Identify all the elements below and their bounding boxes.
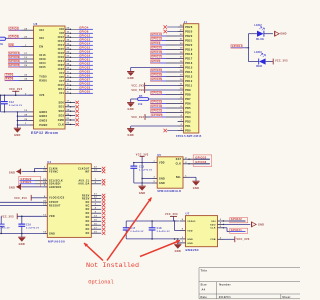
capacitor C16 2.2uF/6.3V [18,216,39,233]
U4 right no-connect pins with X [78,167,105,236]
svg-text:VCC_3V3: VCC_3V3 [1,215,14,218]
ground symbol left of J1 (upper) [127,68,134,81]
svg-text:22: 22 [94,197,97,199]
svg-text:NC: NC [86,229,90,231]
svg-text:21: 21 [67,118,70,120]
svg-text:C18: C18 [157,228,163,230]
svg-text:U5: U5 [157,153,161,157]
svg-text:10k: 10k [0,44,4,46]
svg-text:RESV: RESV [82,195,90,197]
svg-text:GND3: GND3 [39,120,47,123]
svg-text:GPIO15: GPIO15 [79,46,90,50]
svg-text:GPIO33: GPIO33 [151,101,162,104]
wire GND bus under U6 [1,95,29,126]
svg-text:PD3: PD3 [185,116,191,119]
svg-text:VCC_5V0: VCC_5V0 [131,89,144,92]
svg-text:IO2: IO2 [39,29,44,32]
svg-text:2.2uF/6.3V: 2.2uF/6.3V [139,169,153,171]
svg-text:GND: GND [159,178,165,180]
svg-text:IO8: IO8 [59,32,64,35]
svg-text:GND: GND [9,171,15,174]
svg-text:GPIO12: GPIO12 [79,34,90,38]
svg-text:GND: GND [127,77,133,80]
svg-text:17: 17 [67,101,70,103]
svg-text:GND2: GND2 [39,115,47,118]
svg-text:PD26: PD26 [185,26,193,29]
svg-text:PD17: PD17 [185,57,193,60]
svg-text:GPIO18: GPIO18 [79,50,90,54]
arrow note to U7 ground [140,240,180,256]
power GND for LED2 [275,31,287,37]
svg-text:20: 20 [43,201,46,203]
svg-text:IO6: IO6 [59,28,64,31]
svg-text:VDD: VDD [187,230,193,232]
svg-text:18: 18 [43,232,46,234]
capacitor C12 2.2uF/6.3V [1,95,23,112]
svg-text:GPIO19: GPIO19 [79,54,90,58]
net label GPIO13 on J1 [150,33,177,36]
svg-text:VDD: VDD [49,216,55,218]
svg-text:GPIO8: GPIO8 [79,30,89,34]
svg-text:10: 10 [180,88,183,90]
svg-text:IO11: IO11 [58,88,65,91]
svg-text:IO09: IO09 [39,58,46,61]
svg-text:CLK: CLK [210,228,216,230]
svg-text:C12: C12 [9,102,15,104]
ground symbol for U5 SEL [192,177,199,190]
svg-text:SDA/SDI: SDA/SDI [49,183,61,186]
net label GPIO16 [8,52,28,55]
svg-text:GPIO2: GPIO2 [9,27,18,30]
svg-text:GND: GND [139,192,145,195]
svg-text:GPIO16: GPIO16 [151,51,162,54]
svg-text:PD19: PD19 [185,48,193,51]
svg-text:18: 18 [67,105,70,107]
svg-text:GPIO16: GPIO16 [9,52,20,55]
svg-text:GND: GND [14,134,20,137]
power GND at U4 AD0 [9,184,42,190]
svg-text:16: 16 [94,223,97,225]
svg-text:GPIO27: GPIO27 [151,47,162,50]
U7 pin stubs + inner names [180,219,225,245]
svg-text:PD1: PD1 [185,125,191,128]
svg-text:IO16: IO16 [39,54,46,57]
svg-text:GPIO35: GPIO35 [79,90,90,94]
J1 pin stubs + numbers + inner names [178,24,193,132]
svg-text:NC: NC [86,202,90,204]
svg-text:U7: U7 [186,212,190,216]
svg-text:31: 31 [67,56,70,58]
svg-text:CLKIN: CLKIN [49,168,58,170]
svg-text:GPIO12: GPIO12 [151,38,162,41]
net label GPIO23 on J1 [150,109,177,112]
svg-text:CLK: CLK [58,123,64,126]
ground symbol below U7 [174,243,181,253]
note Not Installed [86,262,139,270]
svg-text:2.2uF/6.3V: 2.2uF/6.3V [0,227,10,229]
wire U5 GND pins [134,178,151,184]
wire GND rail to U7 [126,238,179,240]
svg-text:IO5: IO5 [59,76,64,79]
svg-text:22: 22 [94,167,97,169]
svg-text:FSYNC: FSYNC [49,171,58,173]
svg-text:11: 11 [180,84,183,86]
svg-text:2.2uF/6.3V: 2.2uF/6.3V [9,105,23,107]
svg-text:U6: U6 [34,22,38,26]
svg-text:IO22: IO22 [58,64,65,67]
svg-text:GPIO36: GPIO36 [195,160,206,164]
svg-text:GPIO34: GPIO34 [151,69,162,72]
svg-text:PD14: PD14 [185,71,193,74]
svg-text:GPIO32: GPIO32 [195,155,206,159]
svg-text:IO04: IO04 [39,62,46,65]
svg-text:RED: RED [256,65,262,68]
svg-text:10k: 10k [138,104,143,106]
svg-text:AD0/SDO: AD0/SDO [49,186,61,189]
svg-text:14: 14 [94,215,97,218]
svg-text:GPIO09: GPIO09 [9,56,20,59]
svg-text:PD15: PD15 [185,66,193,69]
svg-text:PD18: PD18 [185,53,193,56]
svg-text:GND: GND [159,183,165,185]
svg-text:GND: GND [175,250,181,253]
svg-text:VCC_3V3: VCC_3V3 [14,197,27,200]
arrow note to U5 [107,198,152,261]
svg-text:GPIO4: GPIO4 [151,42,160,45]
svg-text:SPM1423HM4H-B: SPM1423HM4H-B [157,190,181,193]
capacitor C13 2.2uF/6.3V [130,163,152,183]
svg-text:PGND: PGND [39,124,47,127]
svg-text:IO4: IO4 [59,72,64,75]
svg-text:GND0: GND0 [39,111,47,114]
svg-text:36: 36 [67,64,70,66]
svg-text:Not Installed: Not Installed [86,262,139,270]
svg-text:17: 17 [94,227,97,229]
svg-text:2.2uF/6.3V: 2.2uF/6.3V [130,231,144,233]
svg-text:10: 10 [43,204,46,206]
svg-text:LED3: LED3 [254,51,262,54]
svg-text:23: 23 [180,30,183,32]
svg-text:PD4: PD4 [185,111,191,114]
capacitor C18 2.2uF/6.3V [149,221,170,239]
wire VDD net of U5 [133,162,151,183]
svg-text:GPIO32: GPIO32 [79,82,90,86]
IC U7 BME280 body [186,212,218,253]
svg-text:24: 24 [180,24,183,27]
U6 right pin stubs + numbers + inner names [58,28,79,96]
svg-text:TXD0: TXD0 [6,74,14,77]
svg-text:GND: GND [9,187,15,190]
svg-text:DAT: DAT [176,158,182,161]
svg-text:Sheet: Sheet [282,296,290,299]
power VCC_3V3 feeding J1 pin 11 [131,83,177,89]
svg-text:SD1: SD1 [59,106,65,109]
resistor R4 (cropped at edge) on GPIO0 net [0,37,9,46]
LED3 RED [254,51,273,68]
svg-text:AUX_DA: AUX_DA [78,183,89,186]
svg-text:PD16: PD16 [185,62,193,65]
svg-text:EN: EN [9,44,13,47]
svg-text:REGOUT: REGOUT [49,205,61,207]
LED2 BLUE [254,24,273,41]
svg-text:GPIO14: GPIO14 [79,42,90,46]
svg-text:PD25: PD25 [185,30,193,33]
svg-text:Date: Date [201,296,208,299]
wire U4 VDD rail [17,216,42,218]
svg-text:BLUE: BLUE [256,38,264,41]
svg-text:IO13: IO13 [58,40,65,43]
svg-text:11: 11 [67,32,70,34]
svg-text:GPIO19: GPIO19 [151,105,162,108]
svg-text:IO23: IO23 [58,68,65,71]
svg-text:VCC_3V3: VCC_3V3 [131,84,144,87]
wire U7 GND pins to ground [177,238,179,243]
svg-text:VCC_3V3: VCC_3V3 [131,116,144,119]
net label GPIO32 on U5 DAT [189,155,210,159]
svg-text:20: 20 [180,43,183,45]
svg-text:SCL/SCLK: SCL/SCLK [49,181,63,183]
power VCC_3V3 for LED3 [273,59,288,65]
svg-text:PD2: PD2 [185,120,191,123]
J1 pin 24 no-connect X [164,25,178,28]
svg-text:24: 24 [43,181,46,184]
svg-text:12: 12 [67,80,70,82]
power GND for U7 SDO [252,222,265,228]
svg-text:VCC_3V3: VCC_3V3 [275,59,288,62]
svg-text:3V3: 3V3 [39,94,45,97]
net label GPIO36 on U5 CLK [189,160,210,164]
svg-text:NC: NC [86,225,90,227]
svg-text:IO1: IO1 [59,92,64,95]
svg-text:20: 20 [67,114,70,116]
net label GPIO17 on J1 [150,55,177,58]
svg-text:GPIO17: GPIO17 [151,56,162,59]
power VCC_3V3 for U6 3V3 pin [9,88,23,95]
svg-text:VCC_3V3: VCC_3V3 [9,88,23,91]
svg-text:SDO: SDO [210,224,216,226]
svg-text:GPIO04: GPIO04 [9,60,20,63]
net label GPIO35 on J1 [150,73,177,76]
svg-text:VCC_3V3: VCC_3V3 [236,238,250,241]
wire 3V3 rail to U6 [0,94,34,96]
svg-text:PD7: PD7 [185,98,191,101]
net label GPIO04 [8,60,28,63]
wire U7 SDO to ground [224,223,251,225]
power VCC_3V3 above U7 [165,213,178,221]
svg-text:GPIO21: GPIO21 [79,58,90,62]
arrow note to U4 [84,243,103,261]
J1 pin 23 no-connect X [164,30,178,33]
svg-text:2.2uF/6.3V: 2.2uF/6.3V [157,231,171,233]
svg-text:22: 22 [180,34,183,36]
capacitor C15 (cropped at edge) [0,216,10,233]
ground symbol below U6 [14,125,21,137]
svg-text:CMD: CMD [58,119,64,122]
resistor R5 on J1 pin 8 [131,95,178,106]
svg-text:13: 13 [43,215,46,217]
svg-text:2019/5/1: 2019/5/1 [219,296,231,299]
svg-text:Title: Title [201,269,208,273]
svg-text:MPU6050: MPU6050 [48,239,65,243]
wire U5 SEL to ground [189,176,196,178]
svg-text:VDDIO: VDDIO [187,221,195,223]
svg-text:GPIO26: GPIO26 [151,92,162,95]
svg-text:13: 13 [180,75,183,77]
svg-text:GND: GND [187,239,193,241]
svg-text:23: 23 [67,48,70,50]
svg-text:CLK: CLK [176,164,182,166]
svg-text:14: 14 [67,35,70,38]
svg-text:18: 18 [180,52,183,54]
annotation box around U4 labels [19,176,41,186]
svg-text:GND: GND [127,134,133,137]
svg-text:BME280: BME280 [186,248,199,252]
IC U6 ESP32 Wroom body [31,22,65,135]
svg-text:EN: EN [39,46,43,49]
svg-text:A4: A4 [202,288,206,292]
U6 SD0-CLK no-connect pins with X [58,101,79,127]
wire U4 REGOUT (to edge) [0,204,42,206]
svg-text:12: 12 [94,170,97,172]
svg-text:CLKOUT: CLKOUT [78,168,90,170]
power VCC_3V3 + net label GPIO25 on J1 pin 4 [131,114,177,120]
svg-text:19: 19 [67,109,70,111]
net label GPIO21 on U7 CLK [224,228,248,234]
svg-text:12: 12 [180,79,183,81]
svg-text:IO10: IO10 [58,84,65,87]
power VCC_3V3 for U5 [136,153,149,162]
U6 left pin stubs + numbers + inner names [24,27,47,127]
connector J1 FPC0.5-SMT-24P-B body [176,20,202,138]
svg-text:GPIO23: GPIO23 [151,110,162,113]
net label GPIO5 on J1 [150,60,177,63]
svg-text:GPIO14: GPIO14 [232,45,243,48]
svg-text:GPIO26: GPIO26 [79,74,90,78]
svg-text:RXD0: RXD0 [39,79,47,82]
IC U4 MPU6050 body [47,160,91,244]
power VCC_3V3 at U4 VLOGIC [14,195,42,201]
svg-text:PD11: PD11 [185,84,193,87]
svg-text:IO12: IO12 [58,36,65,39]
svg-text:19: 19 [180,48,183,50]
svg-text:GPIO23: GPIO23 [79,66,90,70]
net label GPIO0 [9,35,29,39]
capacitor C17 2.2uF/6.3V [123,221,144,239]
svg-text:GPIO05: GPIO05 [9,64,20,67]
net label GPIO05 [8,64,28,67]
svg-text:VCC_3V3: VCC_3V3 [165,213,178,216]
svg-text:Size: Size [201,283,208,287]
U6 right net labels [78,26,93,94]
svg-text:NC: NC [86,213,90,215]
net label GPIO26 on J1 [150,91,177,94]
svg-text:19: 19 [94,231,97,233]
svg-text:PD8: PD8 [185,93,191,96]
svg-text:Optional: Optional [88,280,113,286]
annotation box around U5 labels [193,155,212,167]
svg-text:GPIO27: GPIO27 [79,78,90,82]
svg-text:GPIO22: GPIO22 [79,62,90,66]
ground symbol below R5 [127,99,134,111]
net label GPIO33 on J1 [150,100,177,103]
svg-text:33: 33 [67,60,70,62]
svg-text:IO0: IO0 [39,37,44,40]
svg-text:IO15: IO15 [58,48,65,51]
net label RXD0 [5,77,29,81]
power VCC_3V3 for U7 CSB [224,236,250,242]
svg-text:26: 26 [67,28,70,30]
svg-text:16: 16 [180,61,183,63]
svg-text:17: 17 [180,57,183,59]
svg-text:PD22: PD22 [185,35,193,38]
IC U5 SPM1423HM4H-B body [157,153,183,193]
svg-text:U4: U4 [47,160,51,164]
svg-text:GND: GND [127,108,133,111]
svg-text:CSB: CSB [210,239,216,241]
net label GPIO22 on U4 SCL [20,177,43,181]
svg-text:IO19: IO19 [58,56,65,59]
net label GPIO14 to LEDs [231,45,244,49]
svg-text:21: 21 [94,194,97,196]
svg-text:GPIO5: GPIO5 [151,60,160,63]
svg-text:IO7: IO7 [59,80,64,83]
svg-text:FPC0.5-SMT-24P-B: FPC0.5-SMT-24P-B [176,135,202,138]
wire GPIO14 node to LED branches [244,34,259,62]
svg-text:VLOGIC/CS: VLOGIC/CS [49,198,65,200]
svg-text:21: 21 [180,39,183,41]
svg-text:VDD: VDD [159,163,165,165]
wire U7 VDD elbow [175,221,180,231]
net label GPIO34 on J1 [150,69,177,72]
svg-text:CPOUT: CPOUT [49,202,59,204]
svg-text:NC: NC [86,205,90,207]
wire J1 pin 15 to ground [131,67,178,69]
wire U4 CPOUT (to edge) [0,201,42,203]
svg-text:PD21: PD21 [185,39,193,42]
svg-text:15: 15 [180,66,183,68]
svg-text:30: 30 [67,52,70,54]
svg-text:NC: NC [86,233,90,235]
svg-text:PD0: PD0 [185,129,191,132]
net label GPIO22 on U7 SDI [224,217,248,223]
svg-text:SD2: SD2 [59,110,65,113]
svg-text:SD3: SD3 [59,115,65,118]
net label GPIO09 [8,56,28,59]
svg-text:GND: GND [280,33,286,36]
svg-text:NC: NC [86,217,90,219]
U5 pin stubs + inner names [151,156,190,185]
net label GPIO27 on J1 [150,46,177,49]
svg-text:37: 37 [67,68,70,70]
net label TXD0 [5,73,29,77]
svg-text:GPIO25: GPIO25 [152,114,163,117]
svg-text:NC: NC [86,221,90,223]
svg-text:IO05: IO05 [39,66,46,69]
svg-text:SEL: SEL [176,177,182,179]
svg-text:SDI: SDI [211,221,216,223]
svg-text:IO21: IO21 [58,60,65,63]
svg-text:GND: GND [193,187,199,190]
svg-text:GPIO0: GPIO0 [9,36,18,39]
svg-text:GPIO13: GPIO13 [79,38,90,42]
svg-text:GPIO4: GPIO4 [79,26,89,30]
svg-text:16: 16 [67,40,70,42]
wire J1 pin 2 to ground [131,125,178,127]
svg-text:J1: J1 [184,20,188,24]
net label GPIO16 on J1 [150,51,177,54]
svg-text:TXD0: TXD0 [39,75,47,78]
net label GPIO19 on J1 [150,105,177,108]
